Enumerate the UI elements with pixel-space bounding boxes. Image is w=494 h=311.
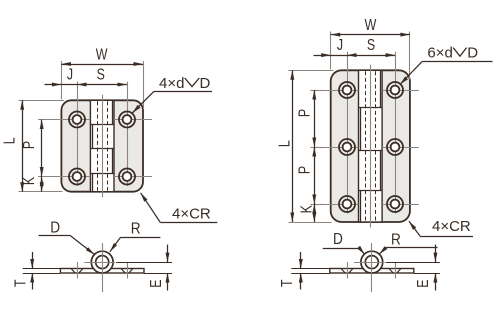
hole centerline (left) at x=127.0 — [127, 262, 129, 279]
knuckle jog line segment 1 (left) — [112, 100, 114, 124]
hinge body (left) — [61, 100, 143, 191]
dimension P extension (left) handled by grid — [38, 119, 55, 121]
leader for R (left bottom) — [121, 237, 161, 239]
svg-text:K: K — [297, 205, 315, 214]
knuckle jog line segment 1 (right) — [380, 70, 382, 107]
countersink section marks (left) at x=127.0 — [121, 269, 125, 274]
dimension E (right) — [435, 245, 437, 263]
knuckle outer circle (left) — [91, 251, 113, 273]
dimension J/S line (left) — [45, 84, 62, 86]
knuckle division line (right) y=190.0 — [359, 190, 383, 192]
knuckle division line (right) y=150.0 — [359, 150, 383, 152]
hinge body (right) — [331, 70, 410, 222]
knuckle horizontal centerline (right) — [354, 262, 385, 264]
svg-text:P: P — [20, 141, 38, 149]
bottom view plate (left) — [60, 269, 144, 274]
hole centerline grid (left) — [55, 119, 90, 121]
svg-text:R: R — [391, 232, 401, 249]
svg-text:L: L — [275, 140, 293, 147]
hinge barrel strip (left) — [90, 100, 114, 191]
label 4×CR underline (right) — [420, 236, 473, 238]
svg-text:D: D — [50, 220, 60, 237]
svg-text:D: D — [200, 75, 211, 92]
svg-text:T: T — [11, 279, 29, 287]
dimension W extension lines (left) — [61, 61, 63, 99]
dimension P (left) — [41, 120, 43, 177]
countersink section marks (right) at x=347.0 — [341, 269, 345, 274]
svg-text:L: L — [0, 137, 18, 144]
hole centerline grid (right) — [325, 90, 359, 92]
leader for D (left bottom) — [39, 235, 71, 237]
hole centerline (left) at x=77.0 — [77, 262, 79, 279]
dimension T (left) — [32, 252, 34, 269]
countersunk hole (right) at x=395.0 y=204.0 — [387, 196, 403, 212]
countersunk hole (left) at x=127.0 y=119.5 — [119, 112, 135, 128]
label 4×d∨D underline (left) — [154, 91, 212, 93]
dimension T extension lines (left) — [23, 268, 61, 270]
countersink symbol (left) — [185, 78, 200, 87]
svg-text:E: E — [147, 279, 165, 287]
barrel centerline (left) — [102, 95, 104, 197]
svg-text:P: P — [295, 166, 313, 174]
svg-text:S: S — [97, 65, 105, 83]
dimension W (left) — [61, 64, 143, 66]
label 4×CR underline (left) — [160, 222, 217, 224]
svg-text:K: K — [20, 176, 38, 185]
countersunk hole (right) at x=395.0 y=147.0 — [387, 139, 403, 155]
leader arrow for 4×CR (left) — [141, 193, 161, 223]
dimension L (right) — [292, 70, 294, 222]
knuckle division line (left) y=173.8 — [90, 173, 114, 175]
dimension P extension lines (right) — [311, 90, 325, 92]
dimension T (right) — [300, 252, 302, 269]
svg-text:E: E — [414, 279, 432, 287]
svg-text:W: W — [96, 45, 108, 63]
dimension L extension lines (left) — [19, 100, 65, 102]
svg-text:J: J — [337, 36, 343, 54]
countersunk hole (left) at x=127.0 y=176.5 — [119, 169, 135, 185]
dimension P upper (right) — [314, 90, 316, 147]
svg-text:D: D — [333, 231, 343, 248]
countersunk hole (left) at x=77.0 y=176.5 — [69, 169, 85, 185]
countersunk hole (right) at x=347.0 y=90.0 — [339, 82, 355, 98]
countersunk hole (right) at x=347.0 y=204.0 — [339, 196, 355, 212]
pin hole inner circle (left) — [96, 256, 109, 269]
hole centerline (right) at x=395.0 — [395, 262, 397, 279]
svg-text:R: R — [131, 221, 141, 238]
countersunk hole (left) at x=77.0 y=119.5 — [69, 112, 85, 128]
countersink section marks (left) at x=77.0 — [71, 269, 75, 274]
dimension L (left) — [22, 100, 24, 191]
countersink section marks (right) at x=395.0 — [389, 269, 393, 274]
knuckle vertical centerline (right) — [371, 243, 373, 292]
knuckle jog line segment 4 (right) — [360, 190, 362, 222]
pin hole dashed lines (right) — [365, 71, 367, 221]
dimension K (left) — [41, 177, 43, 192]
hole centerline (right) at x=347.0 — [347, 262, 349, 279]
dimension E extension lines (left) — [116, 262, 172, 264]
dimension W (right) — [331, 34, 410, 36]
svg-text:4×CR: 4×CR — [172, 205, 211, 222]
leader arrow for 4×CR (right) — [409, 221, 420, 236]
dimension E (left) — [167, 245, 169, 263]
svg-text:D: D — [467, 45, 478, 62]
dimension L extension lines (right) — [289, 70, 334, 72]
dimension P lower (right) — [314, 147, 316, 204]
svg-text:W: W — [365, 16, 377, 34]
knuckle jog line segment 3 (left) — [112, 149, 114, 174]
leader arrow for 6×d∨D (right) — [400, 62, 422, 85]
dimension J/S line (right) — [314, 55, 331, 57]
pin hole dashed lines (left) — [97, 101, 99, 190]
hinge barrel strip (right) — [359, 70, 383, 222]
label 6×d∨D underline (right) — [422, 61, 493, 63]
knuckle jog line segment 2 (right) — [360, 108, 362, 150]
svg-text:6×d: 6×d — [427, 45, 452, 62]
svg-text:4×CR: 4×CR — [432, 218, 471, 235]
svg-text:S: S — [367, 36, 375, 54]
knuckle division line (right) y=107.6 — [359, 107, 383, 109]
svg-text:4×d: 4×d — [159, 75, 184, 92]
leader arrow for 4×d∨D (left) — [132, 91, 154, 113]
dimension W extension lines (right) — [330, 32, 332, 70]
dimension T extension lines (right) — [291, 268, 330, 270]
countersunk hole (right) at x=395.0 y=90.0 — [387, 82, 403, 98]
svg-text:J: J — [67, 65, 73, 83]
knuckle jog line segment 2 (left) — [92, 124, 94, 148]
knuckle jog line segment 3 (right) — [380, 150, 382, 190]
svg-text:T: T — [277, 279, 295, 287]
dimension E extension lines (right) — [386, 262, 440, 264]
knuckle horizontal centerline (left) — [84, 262, 115, 264]
bottom view plate (right) — [330, 269, 414, 274]
leader for D (right bottom) — [323, 248, 360, 250]
knuckle division line (left) y=148.8 — [90, 148, 114, 150]
dimension K (right) — [314, 204, 316, 222]
pin hole inner circle (right) — [365, 256, 378, 269]
knuckle division line (left) y=124.4 — [90, 124, 114, 126]
knuckle vertical centerline (left) — [102, 243, 104, 292]
svg-text:P: P — [295, 109, 313, 117]
leader for R (right bottom) — [386, 247, 438, 249]
countersunk hole (right) at x=347.0 y=147.0 — [339, 139, 355, 155]
knuckle jog line segment 4 (left) — [92, 174, 94, 192]
countersink symbol (right) — [453, 48, 466, 57]
knuckle outer circle (right) — [361, 251, 383, 273]
barrel centerline (right) — [370, 65, 372, 228]
